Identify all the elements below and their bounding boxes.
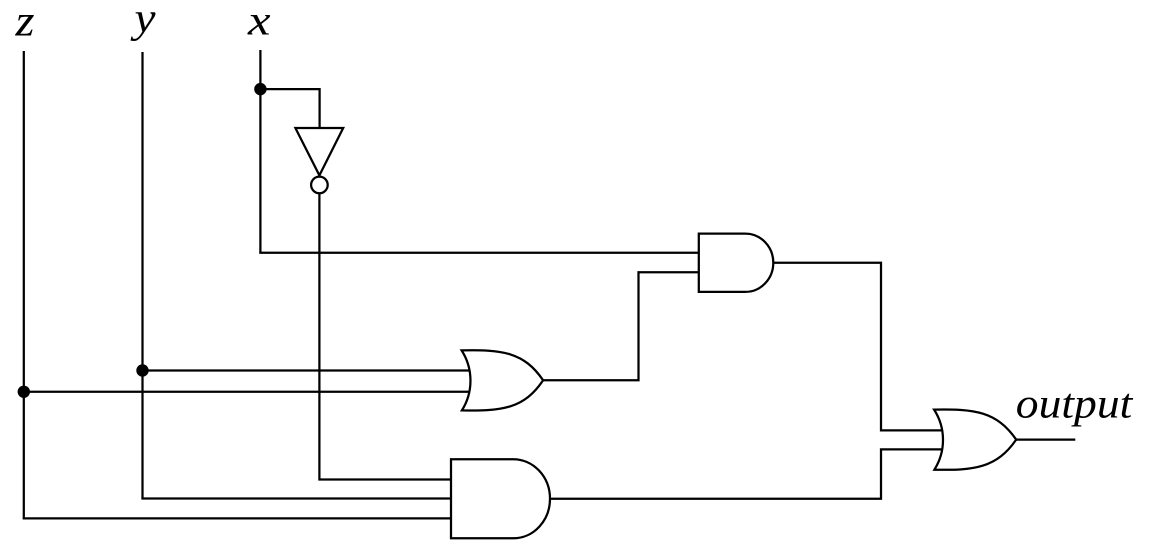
junction dot on y [136, 364, 148, 376]
junction dot on x [254, 83, 266, 95]
wire input y vertical [141, 52, 143, 499]
wire z bottom run to AND2 pin 3 [24, 517, 451, 518]
OR gate U3 (middle) [462, 350, 543, 410]
AND gate U4 (bottom) [451, 459, 550, 538]
wire output [1017, 439, 1076, 441]
NOT gate U1 triangle [295, 128, 343, 175]
wire OR1 output to AND1 pin 2 [543, 272, 699, 380]
wire NOT output to AND2 pin 1 [319, 193, 451, 479]
NOT gate U1 bubble [311, 177, 328, 194]
svg-text:x: x [247, 0, 271, 45]
wire x branch to NOT gate input [260, 89, 319, 128]
wire AND1 output to OR2 pin 1 [773, 263, 942, 431]
wire z branch to OR1 pin 2 [24, 391, 470, 393]
OR gate U5 (output) [934, 409, 1016, 469]
svg-text:output: output [1016, 381, 1134, 427]
wire AND2 output to OR2 pin 2 [550, 449, 942, 498]
AND gate U2 (top) [699, 234, 774, 292]
wire y branch to OR1 pin 1 [143, 369, 471, 371]
wire x run to AND1 pin 1 [260, 252, 698, 253]
junction dot on z [18, 386, 30, 398]
svg-text:y: y [130, 0, 156, 42]
wire y bottom run to AND2 pin 2 [143, 497, 452, 498]
svg-text:z: z [14, 0, 34, 46]
wire input x vertical [259, 50, 261, 253]
wire input z vertical [23, 51, 25, 518]
